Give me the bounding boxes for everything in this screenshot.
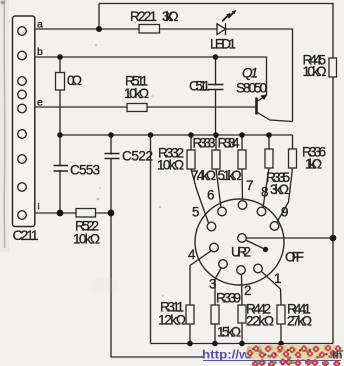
svg-text:9: 9 — [281, 205, 288, 220]
svg-text:3kΩ: 3kΩ — [270, 182, 289, 197]
svg-text:a: a — [37, 19, 43, 31]
svg-text:0Ω: 0Ω — [67, 73, 82, 88]
svg-text:R334: R334 — [218, 136, 240, 151]
svg-text:S8050: S8050 — [236, 81, 267, 96]
svg-text:th: th — [332, 350, 343, 362]
svg-text:8: 8 — [261, 185, 268, 200]
svg-text:5.1kΩ: 5.1kΩ — [218, 168, 242, 183]
svg-text:3kΩ: 3kΩ — [162, 9, 179, 24]
svg-text:UR2: UR2 — [231, 245, 251, 260]
svg-text:10kΩ: 10kΩ — [73, 232, 100, 247]
svg-text:Q1: Q1 — [242, 66, 258, 81]
svg-text:5: 5 — [192, 205, 199, 220]
svg-text:R221: R221 — [130, 9, 157, 24]
svg-text:C522: C522 — [122, 149, 153, 164]
svg-text:4: 4 — [188, 247, 196, 262]
svg-text:OFF: OFF — [285, 250, 304, 265]
svg-text:15kΩ: 15kΩ — [217, 325, 241, 340]
svg-text:b: b — [37, 46, 43, 58]
svg-text:3: 3 — [209, 277, 216, 292]
svg-text:10kΩ: 10kΩ — [157, 158, 184, 173]
svg-text:LED1: LED1 — [210, 37, 236, 52]
svg-text:7: 7 — [246, 178, 253, 193]
svg-text:C211: C211 — [13, 227, 39, 243]
svg-text:2: 2 — [244, 283, 251, 298]
svg-text:1: 1 — [274, 271, 281, 286]
svg-text:10kΩ: 10kΩ — [303, 64, 327, 79]
svg-text:12kΩ: 12kΩ — [158, 313, 186, 328]
svg-text:i: i — [38, 202, 40, 213]
svg-text:R333: R333 — [193, 136, 216, 151]
svg-text:22kΩ: 22kΩ — [246, 314, 274, 329]
svg-text:C511: C511 — [189, 79, 210, 94]
svg-text:7.4kΩ: 7.4kΩ — [191, 168, 216, 183]
svg-text:e: e — [37, 97, 43, 109]
svg-text:C553: C553 — [70, 163, 100, 178]
svg-text:10kΩ: 10kΩ — [124, 86, 149, 101]
svg-text:1kΩ: 1kΩ — [305, 157, 322, 172]
svg-text:27kΩ: 27kΩ — [287, 314, 312, 329]
svg-text:R339: R339 — [216, 291, 241, 306]
svg-text:6: 6 — [207, 188, 214, 203]
